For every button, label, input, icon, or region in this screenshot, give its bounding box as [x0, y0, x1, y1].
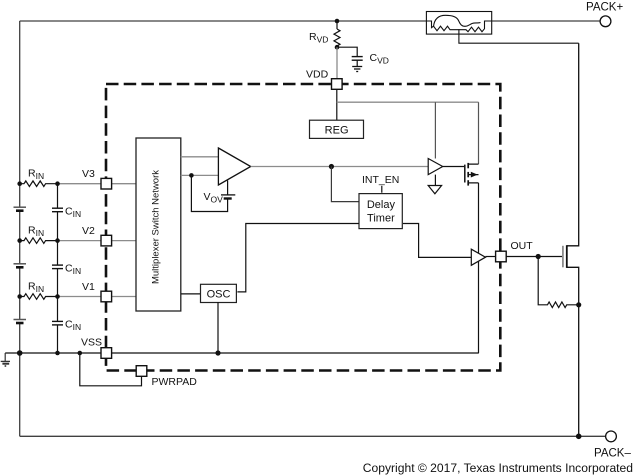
op-amp comparator A1: [218, 148, 250, 185]
wire buffer supply: [434, 102, 436, 158]
battery cell B1: [14, 207, 27, 211]
svg-text:Delay: Delay: [367, 199, 396, 211]
node PWRPAD branch: [78, 351, 83, 356]
wire PWRPAD branch: [80, 353, 142, 386]
wire V3 row: [58, 183, 137, 185]
svg-text:PWRPAD: PWRPAD: [152, 376, 198, 388]
resistor RIN1: [20, 181, 58, 187]
svg-text:V1: V1: [82, 281, 95, 293]
regulator REG: [310, 120, 364, 138]
fuse F1 with heater: [426, 12, 578, 44]
node source bottom rail: [576, 434, 582, 440]
wire gate resistor branch: [538, 257, 579, 308]
dashed IC boundary: [106, 84, 500, 371]
node second rail V3: [55, 181, 60, 186]
wire OSC to delay timer: [237, 224, 359, 292]
resistor RIN3: [20, 294, 58, 300]
wire INT_EN stub: [381, 186, 383, 193]
svg-text:Timer: Timer: [367, 213, 395, 225]
wire VDD top: [336, 21, 338, 29]
node VDD rail tap: [335, 19, 340, 24]
node delay tap: [329, 164, 334, 169]
buffer level shifter: [428, 159, 443, 175]
node RVD bottom: [335, 45, 340, 50]
capacitor CIN2: [52, 265, 63, 269]
wire comparator input bottom: [181, 174, 219, 176]
node second rail V2: [55, 238, 60, 243]
wire buffer down stem: [434, 175, 436, 186]
pin V3: [101, 178, 112, 189]
svg-text:PACK+: PACK+: [586, 2, 623, 14]
battery cell B3: [14, 320, 27, 324]
wire delay timer input: [331, 167, 359, 202]
gate driver buffer: [471, 249, 485, 265]
wire top rail PACK+: [20, 20, 600, 22]
wire internal FET source to VSS: [478, 183, 480, 353]
wire comparator output: [251, 166, 429, 168]
node left rail VSS: [17, 350, 23, 356]
wire left battery rail: [19, 21, 21, 436]
node left rail V2: [17, 238, 22, 243]
resistor RIN2: [20, 238, 58, 244]
terminal PACK-: [606, 431, 617, 442]
wire second rail: [57, 184, 59, 353]
wire VDD pin drop: [336, 47, 338, 79]
wire comparator input top: [181, 156, 219, 158]
multiplexer switch network U1: [136, 138, 181, 311]
wire driver to OUT pin: [486, 256, 496, 258]
svg-text:PACK–: PACK–: [594, 448, 631, 460]
oscillator OSC: [201, 284, 237, 302]
node OUT gate junction: [536, 254, 541, 259]
pin VSS: [101, 348, 112, 359]
wire VSS rail: [5, 352, 479, 354]
ground main: [1, 353, 10, 366]
voltage source VOV: [221, 195, 235, 199]
wire OUT to gate: [506, 256, 562, 258]
svg-text:VDD: VDD: [306, 69, 329, 81]
pin VDD: [332, 79, 343, 90]
svg-text:Copyright © 2017, Texas Instru: Copyright © 2017, Texas Instruments Inco…: [363, 461, 633, 475]
node resistor to source: [576, 302, 581, 307]
battery cell B2: [14, 264, 27, 268]
pin V1: [101, 291, 112, 302]
terminal PACK+: [600, 16, 611, 27]
pin V2: [101, 235, 112, 246]
node VOV tap: [189, 173, 194, 178]
svg-text:OUT: OUT: [511, 240, 534, 252]
resistor RVD: [334, 29, 340, 47]
node second rail VSS: [55, 351, 60, 356]
svg-text:INT_EN: INT_EN: [362, 174, 399, 186]
pin OUT: [496, 251, 507, 262]
node second rail V1: [55, 294, 60, 299]
node battery top junction: [17, 181, 22, 186]
wire V2 row: [58, 240, 137, 242]
wire mux to OSC: [181, 293, 200, 295]
ground CVD: [352, 60, 362, 71]
ground arrow buffer: [428, 186, 441, 194]
wire internal VDD rail: [337, 101, 479, 103]
svg-text:Multiplexer Switch Network: Multiplexer Switch Network: [150, 170, 161, 284]
wire VOV loop: [191, 175, 227, 211]
wire OSC ground stem: [217, 302, 219, 353]
wire REG drop: [336, 89, 338, 121]
wire delay timer output: [403, 224, 471, 258]
wire buffer to gate: [443, 166, 465, 168]
wire CVD branch: [337, 47, 357, 56]
capacitor CVD: [352, 57, 363, 61]
wire V1 row: [58, 296, 137, 298]
transistor internal FET Q1: [465, 163, 479, 186]
delay timer block: [359, 194, 402, 229]
svg-text:VSS: VSS: [81, 337, 102, 349]
svg-text:V3: V3: [82, 168, 95, 180]
node OSC VSS: [215, 350, 220, 355]
capacitor CIN1: [52, 208, 63, 212]
wire bottom rail PACK-: [20, 435, 606, 437]
pin PWRPAD: [136, 366, 147, 377]
node left rail V1: [17, 294, 22, 299]
svg-text:REG: REG: [325, 124, 349, 136]
transistor external FET Q2: [563, 43, 579, 436]
svg-text:V2: V2: [82, 225, 95, 237]
wire internal FET drain drop: [478, 102, 480, 164]
capacitor CIN3: [52, 321, 63, 325]
svg-text:OSC: OSC: [207, 288, 231, 300]
